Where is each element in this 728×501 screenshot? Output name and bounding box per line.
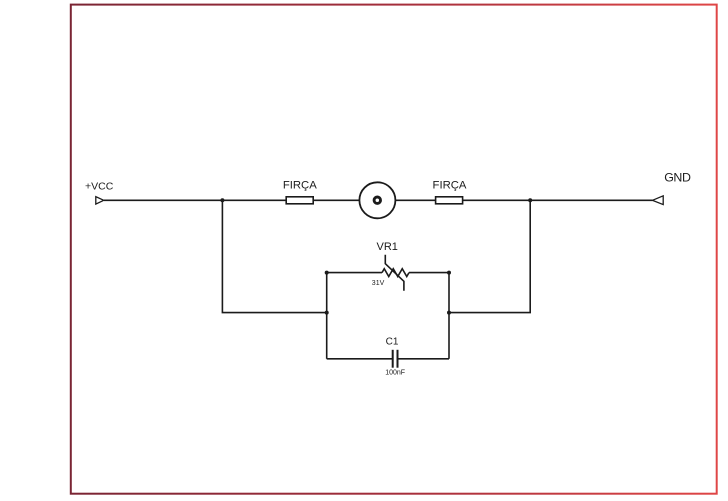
svg-text:100nF: 100nF <box>385 370 405 377</box>
junction A on main wire <box>220 198 224 202</box>
resistor FIRCA left <box>283 179 317 204</box>
wire right tap from junction B down and left <box>449 200 530 312</box>
svg-text:VR1: VR1 <box>377 241 398 253</box>
motor (brushed DC motor symbol) <box>359 182 395 218</box>
svg-text:C1: C1 <box>386 337 399 348</box>
svg-text:31V: 31V <box>372 280 385 287</box>
svg-text:FIRÇA: FIRÇA <box>283 179 317 191</box>
wire top rail of parallel group <box>327 272 449 274</box>
capacitor C1 <box>385 337 405 377</box>
svg-text:FIRÇA: FIRÇA <box>433 179 467 191</box>
varistor VR1 <box>372 241 409 291</box>
resistor FIRCA right <box>433 179 467 204</box>
junction mid-right of parallel group <box>447 311 451 315</box>
svg-text:+VCC: +VCC <box>85 181 114 193</box>
junction top-right of parallel group <box>447 271 451 275</box>
wire left tap from junction A down and right <box>222 200 326 312</box>
junction top-left of parallel group <box>325 271 329 275</box>
svg-text:GND: GND <box>664 171 691 185</box>
power terminal +VCC <box>85 181 114 204</box>
wire left column of parallel group <box>326 273 328 359</box>
ground terminal GND <box>653 171 691 205</box>
junction mid-left of parallel group <box>325 311 329 315</box>
junction B on main wire <box>528 198 532 202</box>
wire main horizontal net <box>104 199 653 201</box>
wire bottom rail of parallel group <box>327 358 449 360</box>
wire right column of parallel group <box>448 273 450 359</box>
